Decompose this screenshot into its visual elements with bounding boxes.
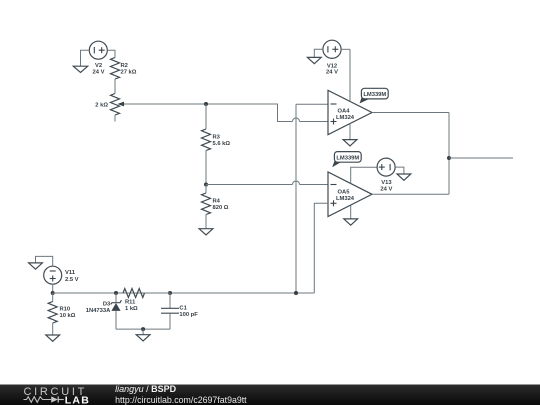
svg-text:LAB: LAB bbox=[65, 394, 90, 405]
node: junction pot wiper / R3 top bbox=[204, 102, 208, 106]
resistor R10 10k bbox=[48, 293, 76, 335]
node: C1 top bbox=[168, 291, 172, 295]
voltage source V2 bbox=[89, 41, 107, 75]
svg-text:C1: C1 bbox=[179, 305, 187, 311]
wire R3/R4 node to OA5 minus input (with hop) bbox=[206, 184, 293, 186]
wire output to the right bbox=[449, 157, 513, 159]
svg-text:LM324: LM324 bbox=[336, 196, 355, 202]
svg-text:2 kΩ: 2 kΩ bbox=[95, 103, 108, 109]
svg-text:R3: R3 bbox=[213, 135, 221, 141]
voltage source V13 bbox=[377, 158, 395, 192]
node: V11 / R10 junction bbox=[51, 291, 55, 295]
voltage source V12 bbox=[323, 40, 341, 76]
wire R2 to pot bbox=[114, 79, 116, 94]
wire V11 top to ground bbox=[36, 256, 53, 266]
wire OA5 V+ supply pin to V13 bbox=[351, 167, 377, 183]
wire OA4 output bbox=[372, 112, 449, 114]
callout LM339M for OA4 bbox=[360, 88, 389, 103]
zener diode D3 1N4733A bbox=[86, 293, 122, 329]
capacitor C1 100pF bbox=[161, 293, 198, 329]
wire V11 bottom to node bbox=[52, 284, 54, 293]
wire reference rail (V11 node to OA5 plus corner) bbox=[53, 292, 315, 294]
wire pot wiper to OA4 plus input (with hop) bbox=[124, 104, 293, 122]
wire vertical reference (OA4 minus down to bottom rail) bbox=[295, 104, 297, 293]
svg-text:OA4: OA4 bbox=[338, 108, 351, 114]
ground below rail bbox=[136, 335, 150, 341]
svg-text:24 V: 24 V bbox=[93, 69, 105, 75]
ground below R4 bbox=[199, 229, 213, 235]
svg-text:R10: R10 bbox=[60, 306, 71, 312]
ground at V13 bbox=[397, 174, 411, 180]
wire V12 left to ground bbox=[314, 49, 323, 57]
svg-text:10 kΩ: 10 kΩ bbox=[60, 313, 76, 319]
svg-text:820 Ω: 820 Ω bbox=[213, 205, 229, 211]
svg-text:D3: D3 bbox=[103, 301, 111, 307]
svg-text:LM339M: LM339M bbox=[363, 92, 386, 98]
ground below OA5 bbox=[344, 219, 358, 225]
wire joining outputs bbox=[448, 113, 450, 195]
svg-text:1N4733A: 1N4733A bbox=[86, 308, 111, 314]
wire OA4 V+ supply pin bbox=[349, 49, 351, 101]
svg-text:24 V: 24 V bbox=[326, 70, 338, 76]
callout LM339M for OA5 bbox=[332, 152, 361, 168]
wire V12 right to OA4 supply bbox=[341, 48, 350, 50]
svg-text:27 kΩ: 27 kΩ bbox=[121, 69, 137, 75]
resistor R2 27k bbox=[111, 58, 137, 80]
resistor R3 5.6k bbox=[202, 104, 231, 185]
logo resistor zigzag bbox=[24, 397, 52, 403]
resistor R11 1k bbox=[123, 289, 170, 313]
wire V13 right to ground bbox=[395, 167, 404, 174]
voltage source V11 bbox=[44, 266, 79, 284]
svg-text:http://circuitlab.com/c2697fat: http://circuitlab.com/c2697fat9a9tt bbox=[115, 395, 247, 405]
svg-text:OA5: OA5 bbox=[338, 189, 351, 195]
ground below OA4 bbox=[343, 140, 357, 146]
svg-text:5.6 kΩ: 5.6 kΩ bbox=[213, 141, 231, 147]
wire OA5 V- pin to ground bbox=[350, 205, 352, 219]
svg-text:R2: R2 bbox=[121, 63, 128, 69]
svg-text:V13: V13 bbox=[381, 180, 392, 186]
wire to ground bbox=[142, 329, 144, 335]
svg-text:V2: V2 bbox=[95, 63, 102, 69]
svg-text:1 kΩ: 1 kΩ bbox=[125, 306, 138, 312]
svg-text:2.5 V: 2.5 V bbox=[65, 277, 79, 283]
svg-text:100 pF: 100 pF bbox=[179, 312, 198, 318]
wire OA4 V- pin to ground bbox=[349, 124, 351, 140]
svg-text:LM324: LM324 bbox=[336, 115, 355, 121]
svg-text:R4: R4 bbox=[213, 199, 221, 205]
wire OA4 minus input bbox=[296, 103, 328, 105]
wire V2 right to R2 bbox=[107, 50, 115, 57]
node: output junction bbox=[447, 156, 451, 160]
svg-text:V11: V11 bbox=[65, 270, 76, 276]
wire bottom rail D3/C1 bbox=[116, 328, 170, 330]
ground at V12 bbox=[307, 57, 321, 63]
wire up to OA5 plus input bbox=[314, 203, 328, 293]
svg-text:R11: R11 bbox=[125, 300, 136, 306]
ground at V11 bbox=[29, 263, 43, 269]
node: zener top bbox=[114, 291, 118, 295]
wire OA5 output bbox=[372, 193, 449, 195]
op-amp OA4 LM324 bbox=[328, 90, 372, 134]
svg-text:24 V: 24 V bbox=[380, 186, 392, 192]
op-amp OA5 LM324 bbox=[328, 172, 372, 217]
svg-text:V12: V12 bbox=[327, 63, 337, 69]
ground at V2 bbox=[73, 66, 87, 72]
node: junction R3/R4 bbox=[204, 183, 208, 187]
node: ref rail / vertical reference wire bbox=[294, 291, 298, 295]
svg-text:liangyu / BSPD: liangyu / BSPD bbox=[115, 384, 177, 394]
node: bottom rail ground junction bbox=[141, 327, 145, 331]
potentiometer 2k bbox=[95, 94, 125, 122]
svg-text:LM339M: LM339M bbox=[336, 156, 359, 162]
resistor R4 820 bbox=[202, 185, 229, 229]
logo diode bbox=[51, 396, 58, 402]
wire V2 left to ground bbox=[81, 50, 90, 66]
ground below R10 bbox=[46, 335, 60, 341]
